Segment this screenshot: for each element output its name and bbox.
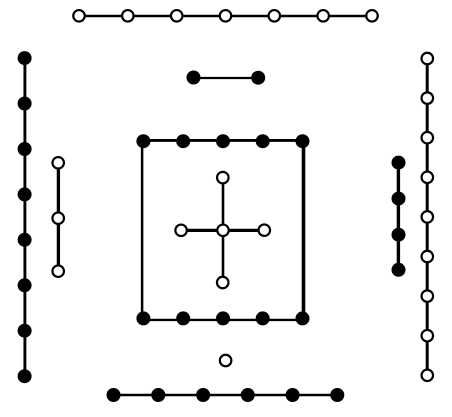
node: single white circle (bottom inner): [220, 355, 232, 367]
node group: four black dots (right inner column): [392, 156, 406, 277]
node group: six black dots (bottom outer row): [107, 388, 345, 402]
wire: top outer horizontal connector: [79, 15, 372, 17]
node group: two black dots (top inner pair): [187, 71, 266, 85]
node group: three white circles (left inner column): [52, 157, 64, 277]
wire: left inner vertical connector: [57, 163, 60, 271]
wire: bottom outer horizontal connector: [114, 394, 338, 397]
wire: center square border (four edges): [141, 139, 305, 321]
node group: five white circles (center cross): [175, 172, 270, 288]
wire: top inner horizontal connector: [194, 77, 259, 79]
wire: right inner vertical connector: [397, 163, 400, 270]
node group: nine white circles (right outer column): [422, 53, 434, 381]
node group: eight black dots (left outer column): [18, 51, 32, 383]
wire: cross horizontal connector: [181, 229, 264, 232]
wire: cross vertical connector: [222, 178, 225, 283]
node group: five black dots (square top edge): [136, 134, 309, 148]
node group: five black dots (square bottom edge): [136, 311, 309, 325]
node group: seven white circles (top outer row): [73, 10, 378, 21]
wire: right outer vertical connector: [426, 59, 429, 376]
wire: left outer vertical connector: [23, 58, 26, 376]
